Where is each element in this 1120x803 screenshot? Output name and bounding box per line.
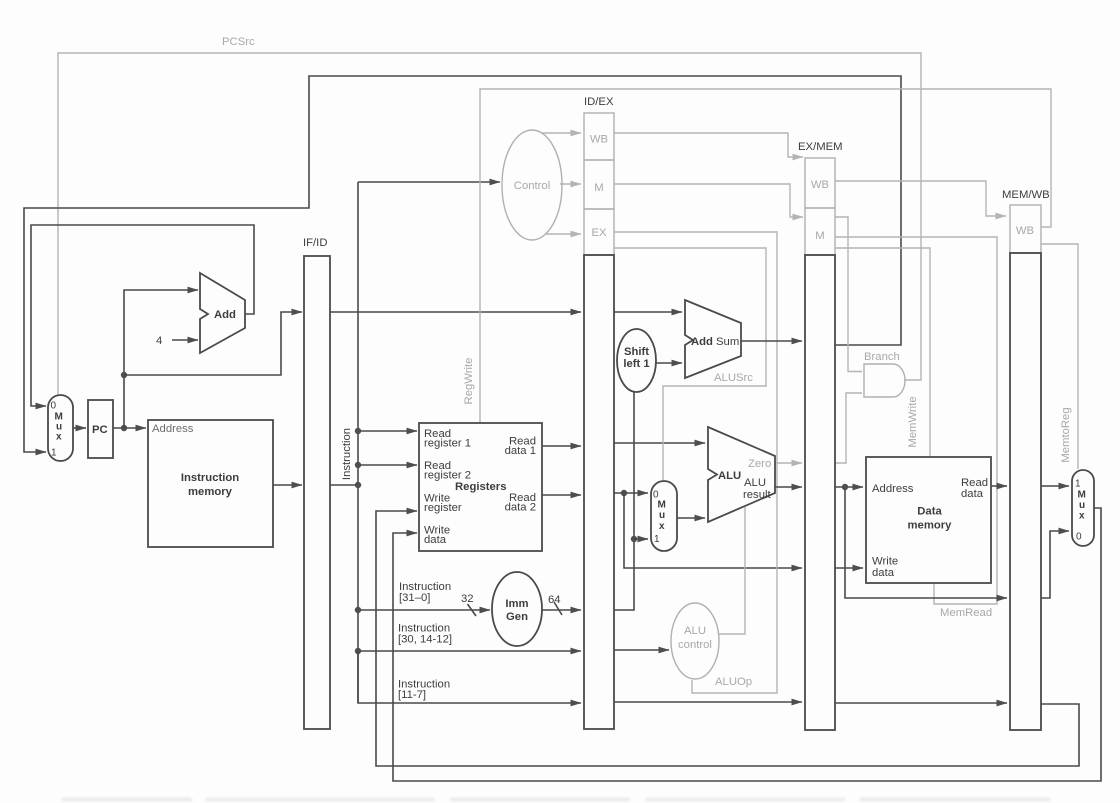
svg-text:M: M — [815, 230, 824, 242]
svg-text:0: 0 — [51, 401, 57, 412]
wire instruction [11-7] from EX/MEM to MEM/WB — [835, 702, 1007, 704]
wire Add output (PC+4) to PC mux input 0 — [31, 225, 254, 406]
svg-text:Add: Add — [691, 336, 713, 348]
wire ALU result from MEM/WB to mux input 0 — [1041, 531, 1069, 598]
mux M2 (ALU source mux) — [651, 481, 677, 551]
svg-text:64: 64 — [548, 594, 561, 606]
wire PC to instruction memory address — [113, 427, 146, 429]
svg-text:IF/ID: IF/ID — [303, 237, 327, 249]
svg-text:register 1: register 1 — [424, 438, 471, 450]
svg-text:x: x — [659, 521, 665, 532]
wire read register 2 — [358, 464, 417, 466]
mux M1 (PC source mux) — [48, 395, 73, 461]
svg-text:M: M — [594, 182, 603, 194]
svg-text:EX: EX — [591, 227, 607, 239]
wire read data from data memory to MEM/WB — [991, 485, 1007, 487]
pipeline register ID/EX — [584, 96, 614, 729]
alu ALU — [708, 427, 775, 522]
svg-text:M: M — [658, 500, 666, 511]
alu control unit — [671, 603, 719, 679]
svg-text:data 1: data 1 — [505, 445, 536, 457]
register file Registers — [419, 423, 542, 551]
svg-text:MemtoReg: MemtoReg — [1060, 407, 1072, 462]
svg-text:Shift: Shift — [624, 346, 649, 358]
instruction memory — [148, 420, 273, 547]
node bus junction imm — [355, 607, 361, 613]
svg-text:Instruction: Instruction — [341, 428, 353, 480]
svg-text:data 2: data 2 — [505, 502, 536, 514]
node imm junction — [631, 536, 637, 542]
node PC branch junction — [121, 372, 127, 378]
wire PCSrc (AND gate output to PC mux select) — [58, 53, 921, 394]
slash 64-bit width tick — [554, 602, 562, 615]
immediate generator Imm Gen — [492, 572, 542, 646]
svg-text:1: 1 — [51, 448, 57, 459]
wire instruction [31-0] to Imm Gen — [358, 609, 490, 611]
svg-text:Registers: Registers — [455, 481, 507, 493]
wire PC from ID/EX to Add Sum — [614, 311, 682, 313]
node bus junction instruction in — [355, 482, 361, 488]
mux M3 (write-back mux) — [1072, 470, 1094, 546]
svg-text:PCSrc: PCSrc — [222, 36, 255, 48]
slash 32-bit width tick — [468, 604, 477, 616]
svg-text:WB: WB — [1016, 225, 1034, 237]
svg-text:Gen: Gen — [506, 611, 528, 623]
svg-text:[11-7]: [11-7] — [398, 689, 426, 701]
wire RegWrite from MEM/WB to Registers — [480, 89, 1051, 422]
wire instruction [11-7] from ID/EX to EX/MEM — [614, 701, 802, 703]
svg-text:Address: Address — [152, 423, 194, 435]
svg-text:[30, 14-12]: [30, 14-12] — [398, 634, 452, 646]
wire imm from ID/EX up to Shift left 1 and ALU mux — [614, 392, 634, 610]
svg-text:result: result — [743, 489, 771, 501]
node bus junction read register 2 — [355, 462, 361, 468]
svg-text:data: data — [424, 534, 447, 546]
wire instruction [30,14-12] from ID/EX to ALU control — [614, 649, 669, 651]
svg-text:1: 1 — [1075, 479, 1081, 490]
node bus junction funct — [355, 648, 361, 654]
pipeline register MEM/WB — [1002, 189, 1050, 730]
svg-text:Zero: Zero — [748, 458, 771, 470]
svg-text:register 2: register 2 — [424, 470, 471, 482]
wire read data 1 from ID/EX to ALU — [614, 442, 705, 444]
wire ALUSrc from ID/EX EX to ALU mux select — [614, 248, 766, 480]
wire ALU result to EX/MEM — [775, 486, 802, 488]
caption remnant at bottom edge — [62, 798, 1050, 801]
svg-text:u: u — [1079, 500, 1085, 511]
wire ID/EX WB to EX/MEM WB — [614, 133, 803, 157]
wire Control WB to ID/EX — [542, 132, 581, 134]
svg-text:0: 0 — [1076, 532, 1082, 543]
svg-text:Branch: Branch — [864, 351, 900, 363]
control unit Control — [502, 130, 562, 240]
wire Add Sum output to EX/MEM — [741, 340, 802, 342]
svg-text:Imm: Imm — [505, 598, 528, 610]
wire read data from MEM/WB to mux input 1 — [1041, 485, 1069, 487]
svg-text:Write: Write — [872, 556, 898, 568]
svg-text:MemRead: MemRead — [940, 607, 992, 619]
svg-text:M: M — [1078, 490, 1086, 501]
node read data 2 junction — [621, 490, 627, 496]
wire ALUOp from ID/EX EX to ALU control — [614, 232, 777, 693]
wire read data 2 from ID/EX to ALU mux input 0 — [614, 492, 648, 494]
wire read data 2 to ID/EX — [542, 494, 581, 496]
wire Control EX to ID/EX — [546, 233, 581, 235]
wire EX/MEM WB to MEM/WB WB — [835, 181, 1006, 216]
wire ALU mux output to ALU — [677, 517, 705, 519]
svg-text:Address: Address — [872, 483, 914, 495]
wire PC up to Add input — [124, 290, 198, 428]
adder Add (PC+4) — [200, 273, 245, 353]
wire write register number from MEM/WB to Registers — [376, 511, 1079, 766]
wire read data 1 to ID/EX — [542, 445, 581, 447]
wire instruction from IF/ID to bus — [330, 484, 358, 486]
svg-text:data: data — [961, 488, 984, 500]
svg-text:4: 4 — [156, 335, 162, 347]
svg-text:ALUSrc: ALUSrc — [714, 372, 753, 384]
wire read register 1 — [358, 430, 417, 432]
svg-text:PC: PC — [92, 424, 108, 436]
svg-text:data: data — [872, 567, 895, 579]
svg-text:MEM/WB: MEM/WB — [1002, 189, 1050, 201]
node ALU result junction — [842, 484, 848, 490]
wire instruction [30,14-12] to ID/EX — [358, 650, 581, 652]
svg-text:Control: Control — [514, 180, 550, 192]
svg-text:32: 32 — [461, 593, 474, 605]
svg-text:MemWrite: MemWrite — [907, 396, 919, 447]
svg-text:EX/MEM: EX/MEM — [798, 141, 843, 153]
wire Shift left 1 to Add Sum — [656, 362, 682, 364]
wire instruction vertical bus — [357, 182, 359, 703]
wire ALU result down to MEM/WB — [845, 487, 1007, 598]
svg-text:ALU: ALU — [684, 625, 706, 637]
svg-text:ALU: ALU — [718, 470, 741, 482]
and gate (branch AND zero) — [864, 364, 905, 397]
wire ALU result from EX/MEM to data memory address — [835, 486, 863, 488]
svg-text:WB: WB — [811, 179, 829, 191]
wire PC from IF/ID to ID/EX — [330, 311, 581, 313]
svg-text:WB: WB — [590, 134, 608, 146]
wire Branch signal to AND gate — [835, 217, 862, 372]
wire Zero flag to EX/MEM — [775, 462, 802, 464]
svg-text:ALU: ALU — [744, 477, 766, 489]
wire imm to ALU mux input 1 — [634, 538, 648, 540]
wire instruction memory to IF/ID — [273, 484, 302, 486]
svg-text:memory: memory — [908, 520, 953, 532]
register PC — [88, 400, 113, 458]
svg-text:register: register — [424, 502, 462, 514]
wire read data 2 down to EX/MEM write data — [624, 493, 802, 568]
wire PC to IF/ID — [124, 312, 302, 375]
data memory — [866, 457, 991, 583]
wire write-back mux output to Registers write data — [393, 508, 1101, 781]
shifter Shift left 1 — [617, 329, 656, 392]
wire constant 4 to Add — [172, 339, 198, 341]
node PC output junction — [121, 425, 127, 431]
wire MemWrite from EX/MEM to data memory — [835, 248, 930, 456]
wire Zero flag from EX/MEM to AND gate — [835, 393, 862, 463]
svg-text:Data: Data — [917, 506, 942, 518]
svg-text:Sum: Sum — [716, 336, 739, 348]
svg-text:memory: memory — [188, 486, 233, 498]
svg-text:RegWrite: RegWrite — [463, 358, 475, 405]
svg-text:x: x — [56, 432, 62, 443]
svg-text:1: 1 — [654, 534, 660, 545]
svg-text:ALUOp: ALUOp — [715, 676, 752, 688]
wire Control M to ID/EX — [560, 183, 581, 185]
svg-text:x: x — [1079, 511, 1085, 522]
svg-text:control: control — [678, 639, 712, 651]
adder Add Sum (branch target) — [685, 300, 741, 378]
wire mux to PC — [73, 427, 86, 429]
wire ID/EX M to EX/MEM M — [614, 184, 803, 217]
wire ALU control to ALU — [719, 507, 745, 634]
wire branch target EX/MEM to PC mux input 1 — [24, 76, 901, 452]
svg-text:u: u — [659, 510, 665, 521]
wire instruction bus to Control — [358, 181, 500, 183]
wire MemtoReg from MEM/WB to mux select — [1041, 244, 1078, 469]
pipeline register EX/MEM — [798, 141, 843, 730]
svg-text:Add: Add — [214, 309, 236, 321]
wire MemRead from EX/MEM to data memory — [835, 237, 997, 604]
pipeline register IF/ID — [303, 237, 330, 729]
wire instruction [11-7] to ID/EX — [358, 651, 581, 703]
svg-text:left 1: left 1 — [623, 358, 649, 370]
wire write data from EX/MEM to data memory — [835, 567, 863, 569]
svg-text:ID/EX: ID/EX — [584, 96, 614, 108]
svg-text:[31–0]: [31–0] — [399, 592, 430, 604]
svg-text:Instruction: Instruction — [181, 472, 239, 484]
wire Imm Gen output to ID/EX — [542, 609, 581, 611]
node bus junction read register 1 — [355, 428, 361, 434]
